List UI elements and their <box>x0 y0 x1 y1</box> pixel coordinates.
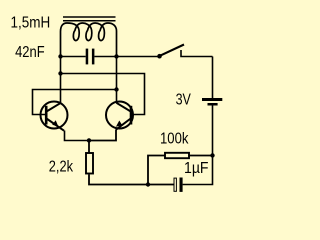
wire Q1 emitter <box>65 131 90 141</box>
inductor L1 coil <box>61 23 117 57</box>
battery B1 plate long <box>202 98 222 101</box>
svg-text:1µF: 1µF <box>184 160 209 177</box>
wire right riser bottom <box>183 106 213 185</box>
transistor Q1 base bar <box>45 106 48 125</box>
node tank right <box>114 54 118 58</box>
svg-text:42nF: 42nF <box>15 44 45 61</box>
svg-text:1,5mH: 1,5mH <box>11 15 51 32</box>
wire R2 left <box>148 156 165 185</box>
switch S1 lever <box>160 45 184 56</box>
svg-text:100k: 100k <box>160 131 189 148</box>
wire tank bottom left <box>61 56 86 58</box>
resistor R2 100k <box>165 153 189 158</box>
wire R2 right <box>189 155 213 157</box>
wire R1 bottom <box>89 175 148 185</box>
wire Q2 emitter <box>89 130 116 141</box>
wire Q2C to Q1B link <box>33 90 117 115</box>
transistor Q1 emitter arrow <box>52 120 58 126</box>
svg-text:3V: 3V <box>176 91 192 108</box>
transistor Q1 collector diagonal <box>47 103 61 112</box>
wire Q1 collector riser <box>60 57 62 104</box>
node Q2 collector link <box>114 87 118 91</box>
transistor Q1 <box>41 102 68 129</box>
wire Q1C to Q2B link <box>61 74 145 115</box>
node emitter junction <box>87 138 91 142</box>
capacitor C1 42nF <box>86 49 95 65</box>
svg-text:2,2k: 2,2k <box>49 159 74 176</box>
node tank left <box>58 54 62 58</box>
node Q1 collector link <box>58 71 62 75</box>
capacitor C2 1uF plate hollow <box>174 178 176 191</box>
wire right riser top <box>212 57 214 99</box>
wire Q2 collector riser <box>116 57 118 104</box>
node R2 right <box>210 153 214 157</box>
transistor Q2 emitter diagonal <box>116 119 131 130</box>
capacitor C2 1uF plate solid <box>180 178 183 192</box>
transistor Q2 base bar <box>130 106 133 125</box>
inductor L1 core lines <box>63 17 116 21</box>
wire C2 left <box>148 184 174 186</box>
transistor Q2 collector diagonal <box>116 103 130 112</box>
transistor Q2 emitter arrow <box>116 121 122 127</box>
resistor R1 2,2k <box>86 153 93 174</box>
wire emitter to R1 <box>88 141 90 154</box>
wire cap to switch <box>94 56 159 58</box>
node bottom junction <box>146 182 150 186</box>
transistor Q2 <box>106 102 133 129</box>
switch S1 contact <box>181 50 213 57</box>
switch S1 pivot <box>157 54 162 59</box>
transistor Q1 emitter diagonal <box>47 119 65 131</box>
battery B1 plate short <box>208 103 218 106</box>
